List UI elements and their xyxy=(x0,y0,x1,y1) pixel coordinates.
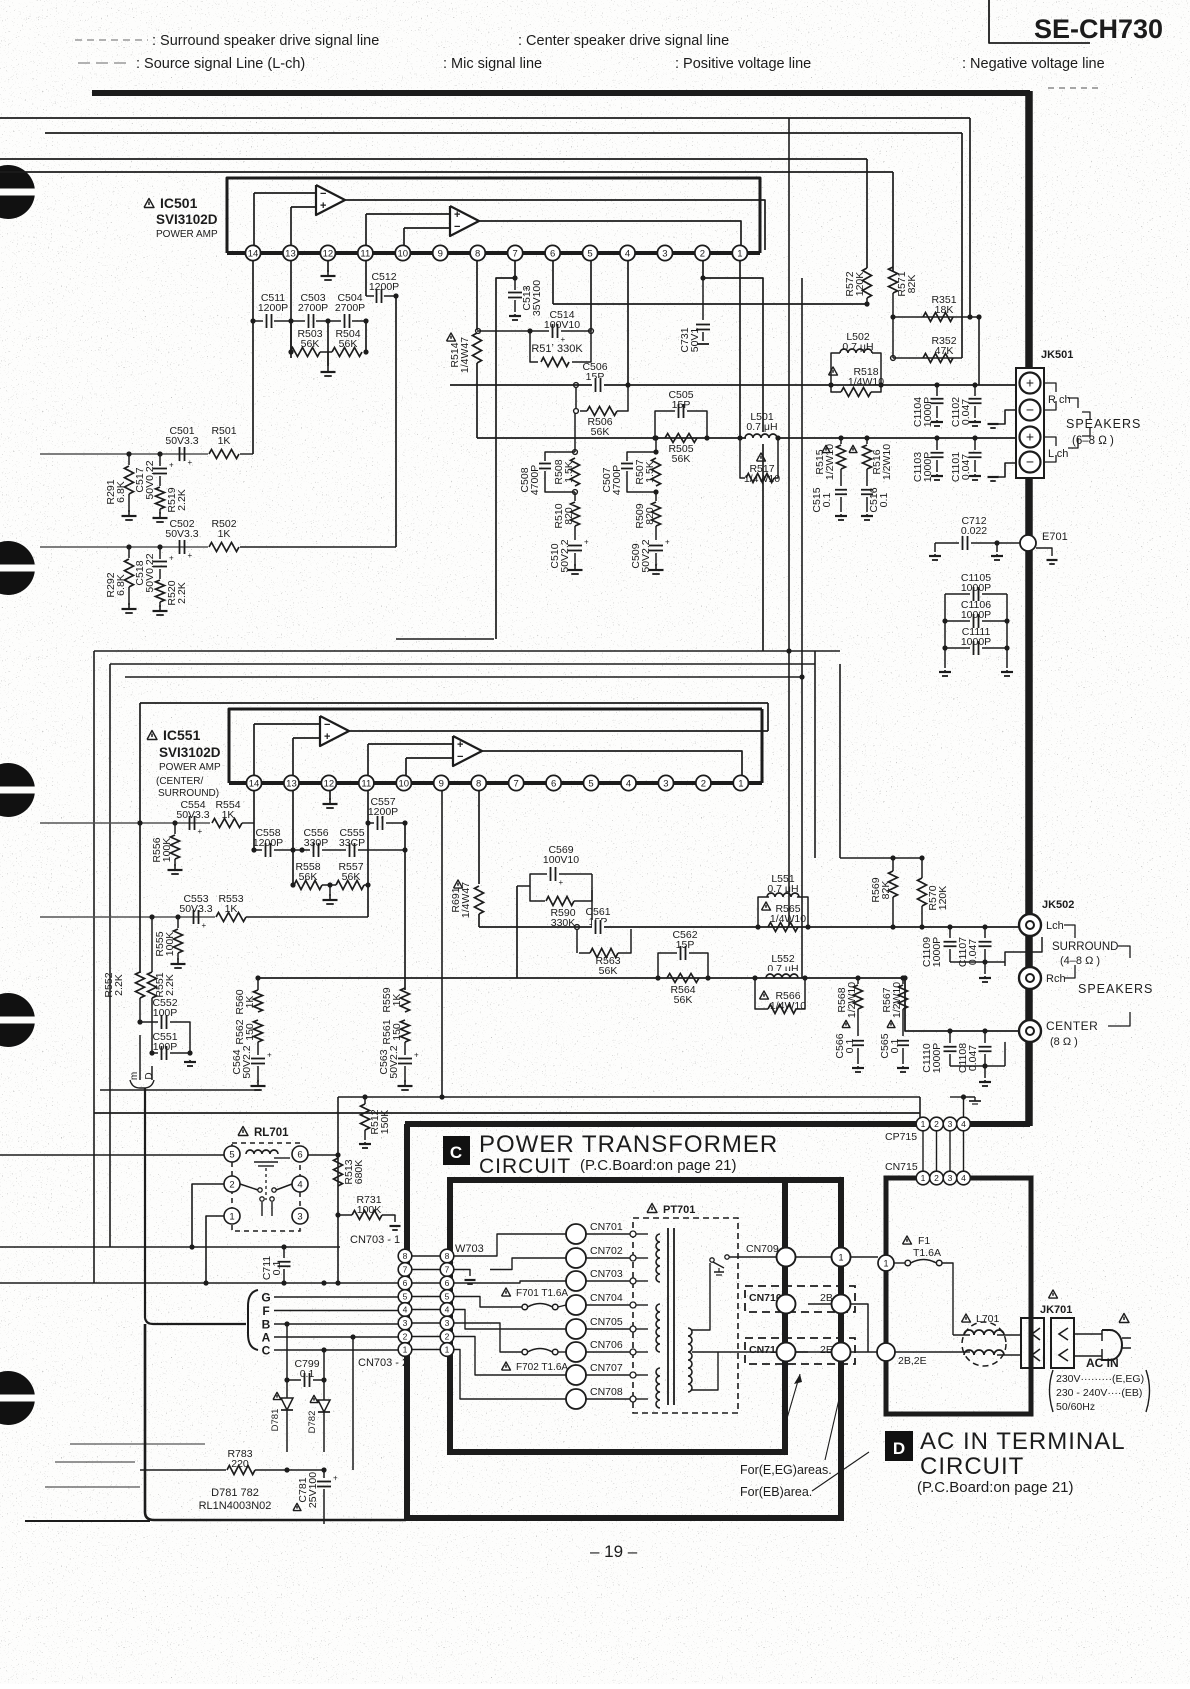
wire cap bank verticals xyxy=(944,594,946,668)
svg-text:8: 8 xyxy=(403,1251,408,1261)
svg-text:33CP: 33CP xyxy=(339,837,365,849)
wire x338 drop xyxy=(337,1097,339,1283)
relay RL701 xyxy=(238,1127,248,1136)
connector 2B2E terminal xyxy=(877,1343,895,1361)
svg-text:5: 5 xyxy=(403,1292,408,1302)
svg-text:B: B xyxy=(262,1318,271,1332)
svg-text:1: 1 xyxy=(921,1173,926,1183)
svg-text:7: 7 xyxy=(514,778,519,789)
svg-text:1/4W47: 1/4W47 xyxy=(459,337,471,373)
wire CN703-W703 row 1 xyxy=(412,1349,440,1351)
svg-text:50V2.2: 50V2.2 xyxy=(559,539,571,572)
connector JK701 xyxy=(1049,1290,1058,1298)
svg-text:: Center speaker drive signal: : Center speaker drive signal line xyxy=(518,33,729,49)
svg-text:13: 13 xyxy=(285,248,296,259)
decorative dashes near title xyxy=(1048,87,1102,89)
svg-text:CN705: CN705 xyxy=(590,1316,623,1328)
wire R571 feed xyxy=(0,171,893,173)
svg-text:8: 8 xyxy=(476,778,481,789)
svg-text:35V100: 35V100 xyxy=(531,280,543,316)
wire CN709 row xyxy=(760,1256,878,1258)
svg-text:2.2K: 2.2K xyxy=(176,582,188,604)
svg-text:100P: 100P xyxy=(153,1041,178,1053)
wire pin13 drop IC551 xyxy=(292,791,294,885)
wire y639 box xyxy=(396,638,494,640)
AC plug xyxy=(1119,1314,1129,1323)
svg-text:9: 9 xyxy=(439,778,444,789)
svg-text:4: 4 xyxy=(961,1119,966,1129)
IC501 pin 8 xyxy=(470,245,485,260)
svg-text:330P: 330P xyxy=(304,837,329,849)
svg-text:13: 13 xyxy=(286,778,297,789)
IC501 pin 14 xyxy=(245,245,260,260)
svg-text:+: + xyxy=(324,731,330,743)
svg-text:+: + xyxy=(202,921,207,930)
svg-text:(4–8 Ω ): (4–8 Ω ) xyxy=(1060,955,1100,967)
wire x140 drop xyxy=(139,823,141,973)
svg-text:1: 1 xyxy=(883,1259,888,1269)
svg-text:4: 4 xyxy=(403,1305,408,1315)
PT701 core xyxy=(667,1228,669,1405)
svg-text:2.2K: 2.2K xyxy=(164,974,176,996)
wire input line A xyxy=(0,117,970,119)
svg-text:F1: F1 xyxy=(918,1235,930,1247)
svg-text:120K: 120K xyxy=(854,272,866,297)
IC501 pin 1 xyxy=(732,245,747,260)
wire C512 branch xyxy=(395,296,397,547)
svg-text:(CENTER/: (CENTER/ xyxy=(156,776,203,787)
svg-text:W703: W703 xyxy=(455,1243,484,1255)
wire pin2 jog xyxy=(702,261,704,278)
svg-text:1: 1 xyxy=(921,1119,926,1129)
capacitor C781 xyxy=(293,1503,301,1510)
IC551 pin 13 xyxy=(284,775,299,790)
svg-text:: Source signal Line (L-ch): : Source signal Line (L-ch) xyxy=(136,56,305,72)
svg-text:50V0.22: 50V0.22 xyxy=(144,553,156,592)
CN703 pin 2 xyxy=(398,1330,412,1344)
svg-text:AC IN: AC IN xyxy=(1086,1356,1119,1370)
wire C514 left connect xyxy=(477,330,530,332)
wire RL701 pin1 out xyxy=(206,1216,224,1283)
wire feedback vertical x970 xyxy=(969,118,971,317)
connector CN710 pin right xyxy=(832,1295,851,1314)
wire W703 pin5 to CN704 xyxy=(454,1297,505,1308)
wire U1B output xyxy=(479,221,741,245)
IC551 pin 5 xyxy=(583,775,598,790)
wire W703 pin4 to CN705 xyxy=(454,1310,566,1330)
svg-text:CN703: CN703 xyxy=(590,1268,623,1280)
PT701 primary winding 2 xyxy=(656,1304,660,1352)
W703 pin 3 xyxy=(440,1316,454,1330)
wire R-ch drive line xyxy=(450,384,1020,386)
svg-text:120K: 120K xyxy=(937,886,949,911)
wire long rail y1113 xyxy=(94,1112,920,1114)
svg-text:SURROUND: SURROUND xyxy=(1052,941,1118,953)
wire web h664 xyxy=(110,663,815,665)
wire input row 1 xyxy=(40,453,208,455)
wire U2A non-inverting input xyxy=(293,737,320,739)
W703 pin 8 xyxy=(440,1249,454,1263)
dashed box CN710 xyxy=(745,1286,855,1312)
svg-text:82K: 82K xyxy=(906,275,918,294)
IC501 pin 7 xyxy=(508,245,523,260)
connector CN710 pin xyxy=(777,1295,796,1314)
wire row F xyxy=(274,1310,398,1312)
wire CN703-W703 row 6 xyxy=(412,1282,440,1284)
wire W703 pin6 to CN703 xyxy=(454,1281,566,1283)
W703 pin 1 xyxy=(440,1343,454,1357)
IC501 pin 3 xyxy=(657,245,672,260)
wire U1B inverting input xyxy=(404,227,450,229)
wire pin7 ground W703 xyxy=(454,1270,470,1277)
connector CN707 xyxy=(566,1365,586,1385)
wire RL701 pin6 out xyxy=(308,1154,338,1156)
wire U2B output xyxy=(482,751,742,775)
svg-text:680K: 680K xyxy=(353,1160,365,1185)
svg-text:1: 1 xyxy=(737,248,742,259)
W703 pin 4 xyxy=(440,1303,454,1317)
dashed box CN712 xyxy=(745,1338,855,1364)
wire CP715-CN715 links xyxy=(922,1131,924,1171)
wire U1A non-inverting input xyxy=(291,206,316,208)
wire pin6 drop xyxy=(552,261,554,304)
svg-text:IC501: IC501 xyxy=(160,195,198,211)
wire web v815 xyxy=(814,651,816,858)
svg-text:5: 5 xyxy=(445,1292,450,1302)
PT701 primary winding 1 xyxy=(656,1234,660,1282)
legend: surround line sample xyxy=(75,39,148,41)
IC501 pin 13 xyxy=(283,245,298,260)
svg-text:50V2.2: 50V2.2 xyxy=(640,539,652,572)
svg-text:R51ʼ 330K: R51ʼ 330K xyxy=(531,343,583,355)
svg-text:G: G xyxy=(261,1291,270,1305)
wire U1A output xyxy=(345,200,765,250)
resistor R565 xyxy=(762,902,771,910)
svg-text:1: 1 xyxy=(229,1211,234,1222)
wire center cap commons xyxy=(950,1065,1005,1067)
IC501 pin 9 xyxy=(433,245,448,260)
jack center xyxy=(1019,1020,1041,1042)
svg-text:+: + xyxy=(267,1051,272,1060)
svg-text:: Positive voltage line: : Positive voltage line xyxy=(675,56,811,72)
svg-text:1: 1 xyxy=(403,1345,408,1355)
svg-text:2: 2 xyxy=(445,1332,450,1342)
op-amp U1B xyxy=(450,206,479,236)
svg-text:CN706: CN706 xyxy=(590,1339,623,1351)
svg-text:7: 7 xyxy=(445,1265,450,1275)
svg-text:0.1: 0.1 xyxy=(300,1368,315,1380)
svg-text:+: + xyxy=(524,285,529,294)
wire Lch step xyxy=(1005,937,1042,966)
svg-text:1200P: 1200P xyxy=(253,837,283,849)
ground R558 R557 xyxy=(329,885,331,896)
svg-text:5: 5 xyxy=(587,248,592,259)
svg-text:T1.6A: T1.6A xyxy=(913,1247,941,1259)
svg-text:CIRCUIT: CIRCUIT xyxy=(479,1155,571,1178)
wire web v840 xyxy=(839,664,841,858)
svg-text:25V100: 25V100 xyxy=(307,1472,319,1508)
svg-text:0.047: 0.047 xyxy=(967,939,979,965)
CN703 pin 4 xyxy=(398,1303,412,1317)
fuse F702 xyxy=(502,1362,511,1370)
svg-text:0.1: 0.1 xyxy=(821,493,833,508)
svg-text:1/4W47: 1/4W47 xyxy=(460,882,472,918)
svg-text:0.022: 0.022 xyxy=(961,525,987,537)
wire JK501 Rch minus stub xyxy=(993,410,1016,424)
wire U2A inverting input xyxy=(254,723,320,725)
svg-text:1/2W10: 1/2W10 xyxy=(881,444,893,480)
svg-text:CN707: CN707 xyxy=(590,1362,623,1374)
CN703 pin 7 xyxy=(398,1263,412,1277)
wire input line B xyxy=(45,132,962,134)
connector CN708 xyxy=(566,1389,586,1409)
svg-text:14: 14 xyxy=(248,248,259,259)
wire x979 drop xyxy=(978,317,980,385)
svg-text:+: + xyxy=(169,461,174,470)
wire 2B link xyxy=(850,1304,868,1352)
W703 pin 5 xyxy=(440,1290,454,1304)
svg-text:CN701: CN701 xyxy=(590,1221,623,1233)
svg-text:2: 2 xyxy=(934,1173,939,1183)
wire U2A output xyxy=(349,730,768,732)
wire R569 R570 top rail xyxy=(840,857,922,859)
relay coil xyxy=(246,1150,278,1154)
inductor L701 xyxy=(962,1314,971,1322)
wire web h677 xyxy=(125,676,800,678)
svg-text:56K: 56K xyxy=(672,453,691,465)
svg-text:PT701: PT701 xyxy=(663,1204,695,1216)
svg-text:POWER AMP: POWER AMP xyxy=(159,762,221,773)
svg-text:+: + xyxy=(454,209,460,221)
svg-text:2700P: 2700P xyxy=(335,302,365,314)
svg-text:RL701: RL701 xyxy=(254,1127,289,1139)
svg-text:0.1: 0.1 xyxy=(271,1261,283,1276)
svg-text:5: 5 xyxy=(588,778,593,789)
PT701 pin stubs xyxy=(630,1231,636,1237)
svg-text:JK701: JK701 xyxy=(1040,1304,1072,1316)
PT701 secondary winding xyxy=(688,1328,692,1392)
wire R506 chain vertical xyxy=(574,413,576,452)
svg-text:: Surround speaker drive signa: : Surround speaker drive signal line xyxy=(152,33,379,49)
wire surround drive line xyxy=(479,926,1020,928)
connector CN705 xyxy=(566,1319,586,1339)
svg-text:AC IN TERMINAL: AC IN TERMINAL xyxy=(920,1428,1126,1455)
CN703 pin 5 xyxy=(398,1290,412,1304)
svg-text:+: + xyxy=(457,739,463,751)
wire pin13 R558 node xyxy=(290,847,295,852)
resistor R514 on pin8 line xyxy=(476,261,478,330)
svg-text:150: 150 xyxy=(244,1023,256,1041)
svg-text:50V1: 50V1 xyxy=(689,328,701,353)
diode D782 xyxy=(310,1395,318,1402)
resistor R516 xyxy=(849,445,857,452)
svg-text:2.2K: 2.2K xyxy=(176,489,188,511)
svg-text:E701: E701 xyxy=(1042,531,1068,543)
svg-text:10: 10 xyxy=(399,778,410,789)
wire A drop xyxy=(352,1337,354,1470)
CN703 pin 3 xyxy=(398,1316,412,1330)
svg-text:56K: 56K xyxy=(674,994,693,1006)
connector CN704 xyxy=(566,1295,586,1315)
svg-text:8: 8 xyxy=(475,248,480,259)
IC551 pin 14 xyxy=(246,775,261,790)
svg-text:+: + xyxy=(188,551,193,560)
IC501 pin 6 xyxy=(545,245,560,260)
svg-text:11: 11 xyxy=(360,248,370,259)
svg-text:C: C xyxy=(262,1344,271,1358)
svg-text:+: + xyxy=(1026,375,1034,391)
svg-text:2: 2 xyxy=(934,1119,939,1129)
wire pin11 drop xyxy=(365,261,367,296)
svg-text:1000P: 1000P xyxy=(961,636,991,648)
svg-text:SVI3102D: SVI3102D xyxy=(159,745,221,760)
W703 pin 7 xyxy=(440,1263,454,1277)
svg-text:50V3.3: 50V3.3 xyxy=(176,809,209,821)
svg-text:1K: 1K xyxy=(225,903,238,915)
wire U1B non-inverting input xyxy=(366,213,450,215)
svg-text:RL1N4003N02: RL1N4003N02 xyxy=(199,1500,272,1512)
op-amp U1A xyxy=(316,185,345,215)
connector CN701 xyxy=(566,1224,586,1244)
diode D781 xyxy=(273,1392,281,1399)
wire pin1 drop xyxy=(739,261,741,438)
IC551 pin 1 xyxy=(733,775,748,790)
wire row B xyxy=(274,1323,398,1325)
title box SE-CH730 xyxy=(989,0,1090,43)
svg-text:6: 6 xyxy=(297,1149,302,1160)
svg-text:1: 1 xyxy=(445,1345,450,1355)
resistor R506 xyxy=(574,409,579,414)
svg-text:SPEAKERS: SPEAKERS xyxy=(1066,417,1141,431)
wire W703 pin7 to CN702 xyxy=(490,1258,566,1270)
svg-text:4: 4 xyxy=(626,778,631,789)
svg-text:50/60Hz: 50/60Hz xyxy=(1056,1401,1095,1413)
svg-text:2: 2 xyxy=(701,778,706,789)
svg-text:−: − xyxy=(320,188,326,200)
jack Rch surround xyxy=(1019,967,1041,989)
legend: source line sample xyxy=(78,62,132,64)
wire C503 C504 junction drop xyxy=(327,321,329,366)
svg-text:7: 7 xyxy=(513,248,518,259)
wire surround input row xyxy=(40,822,210,824)
svg-text:R ch: R ch xyxy=(1048,394,1071,406)
AC in terminal box xyxy=(886,1178,1031,1414)
IC501 pin 12 xyxy=(320,245,335,260)
svg-text:100V10: 100V10 xyxy=(543,854,579,866)
wire bottom stubs xyxy=(70,1443,205,1445)
wire right vertical bus xyxy=(1025,91,1033,1126)
fuse F1 xyxy=(903,1236,912,1244)
wire y1247 rail xyxy=(0,1246,340,1248)
svg-text:2: 2 xyxy=(700,248,705,259)
svg-text:12: 12 xyxy=(324,778,335,789)
wire center drop to jack xyxy=(905,978,1018,1031)
label G F B A C bus xyxy=(248,1290,258,1350)
svg-text:+: + xyxy=(320,200,326,212)
svg-text:CN703 - 2: CN703 - 2 xyxy=(358,1357,408,1369)
wire input row 2 xyxy=(40,546,208,548)
resistor R505 xyxy=(665,434,697,443)
svg-text:JK501: JK501 xyxy=(1041,349,1073,361)
svg-text:1: 1 xyxy=(738,778,743,789)
wire x405 chain drop xyxy=(404,823,406,990)
svg-text:+: + xyxy=(188,458,193,467)
label C section xyxy=(443,1136,470,1165)
label D section xyxy=(885,1431,913,1461)
svg-text:100K: 100K xyxy=(161,838,173,863)
wire pin7 jog xyxy=(514,261,516,278)
wire L-ch drive line xyxy=(477,437,1020,439)
ground below R503 R504 xyxy=(327,366,329,372)
wire CN703-W703 row 7 xyxy=(412,1269,440,1271)
svg-text:1K: 1K xyxy=(218,528,231,540)
label IC501 xyxy=(144,199,154,208)
wire JK501 Lch minus stub xyxy=(993,463,1016,477)
IC551 pin 2 xyxy=(696,775,711,790)
svg-text:50V2.2: 50V2.2 xyxy=(241,1045,253,1078)
svg-text:+: + xyxy=(414,1051,419,1060)
IC501 pin 11 xyxy=(358,245,373,260)
svg-text:2B,2E: 2B,2E xyxy=(898,1355,927,1367)
svg-text:L ch: L ch xyxy=(1048,448,1068,460)
IC551 pin 4 xyxy=(621,775,636,790)
resistor R568 xyxy=(842,1020,850,1027)
svg-text:+: + xyxy=(333,1474,338,1483)
svg-text:D781: D781 xyxy=(270,1409,281,1432)
wire RL701 pin2 out xyxy=(192,1184,224,1247)
svg-text:0.047: 0.047 xyxy=(967,1045,979,1071)
IC551 pin 12 xyxy=(321,775,336,790)
svg-text:L701: L701 xyxy=(976,1313,1000,1325)
svg-text:CN704: CN704 xyxy=(590,1292,623,1304)
svg-text:1000P: 1000P xyxy=(931,937,943,967)
svg-text:4: 4 xyxy=(297,1179,302,1190)
wire pin14 drop xyxy=(252,261,254,454)
jack Lch surround xyxy=(1019,914,1041,936)
wire web v94 xyxy=(93,651,95,1283)
PT701 primary winding 3 xyxy=(656,1368,660,1408)
svg-text:6: 6 xyxy=(403,1278,408,1288)
svg-text:D: D xyxy=(893,1439,905,1458)
svg-text:1: 1 xyxy=(838,1253,843,1263)
svg-text:F701 T1.6A: F701 T1.6A xyxy=(516,1288,568,1299)
op-amp U2A xyxy=(320,716,349,746)
svg-text:2: 2 xyxy=(403,1332,408,1342)
wire secondary taps xyxy=(692,1263,710,1330)
wire C569 to C561 xyxy=(591,890,593,927)
svg-text:SE-CH730: SE-CH730 xyxy=(1034,14,1163,44)
svg-text:1000P: 1000P xyxy=(961,609,991,621)
wire pin4 drop xyxy=(627,261,629,385)
wire CN703-W703 row 3 xyxy=(412,1322,440,1324)
IC501 pin 10 xyxy=(395,245,410,260)
svg-text:D: D xyxy=(144,1072,155,1079)
svg-text:2.2K: 2.2K xyxy=(113,974,125,996)
IC501 pin 2 xyxy=(695,245,710,260)
W703 pin 6 xyxy=(440,1276,454,1290)
connector pin 1 mid xyxy=(832,1248,851,1267)
connector CN709 pin xyxy=(777,1248,796,1267)
wire row A xyxy=(274,1336,398,1338)
svg-text:3: 3 xyxy=(662,248,667,259)
svg-text:50V3.3: 50V3.3 xyxy=(165,528,198,540)
svg-text:CN709: CN709 xyxy=(746,1243,779,1255)
IC551 pin 10 xyxy=(396,775,411,790)
IC551 pin 8 xyxy=(471,775,486,790)
wire bus to power box xyxy=(405,1121,1030,1127)
svg-text:50V0.22: 50V0.22 xyxy=(144,460,156,499)
svg-text:6.8K: 6.8K xyxy=(115,481,127,503)
